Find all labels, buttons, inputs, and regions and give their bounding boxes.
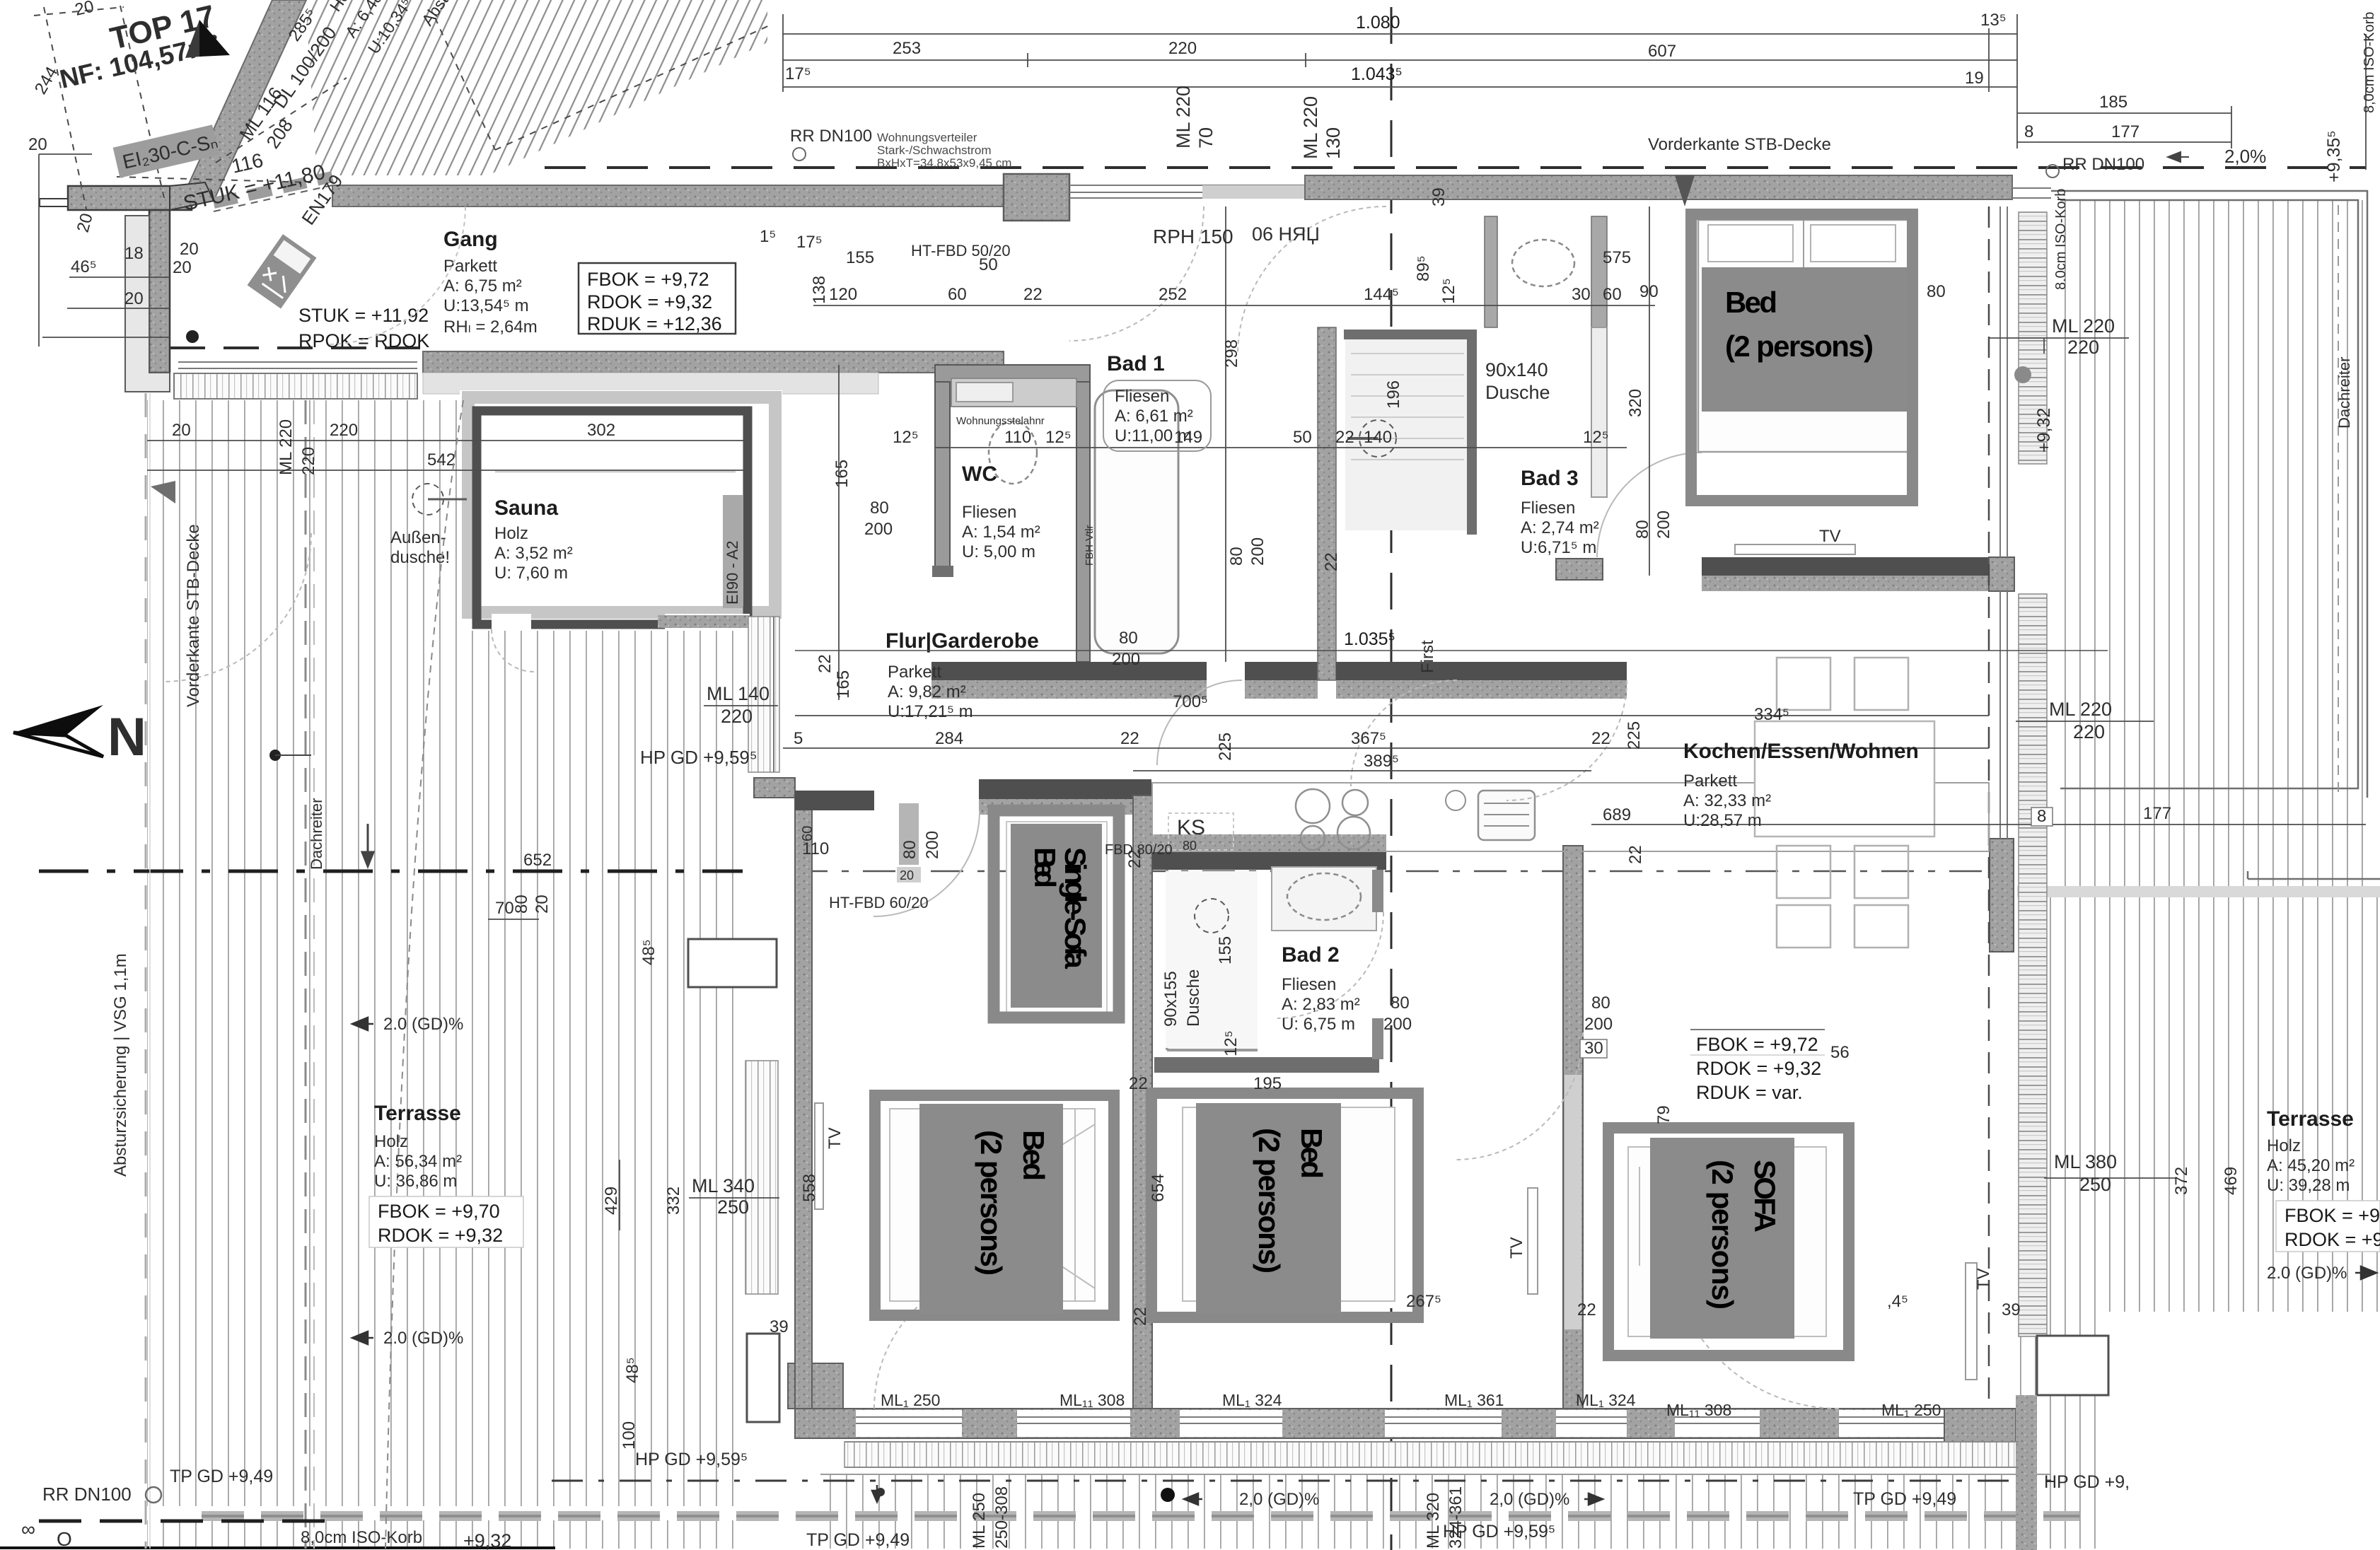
svg-text:Single-Sofa: Single-Sofa: [1059, 847, 1092, 969]
wall: bedroomTR south: [1702, 557, 1998, 576]
svg-text:2.0 (GD)%: 2.0 (GD)%: [2267, 1264, 2347, 1283]
svg-text:20: 20: [172, 421, 191, 440]
ladder strip boundary lines bottom: [844, 1441, 2019, 1443]
svg-text:250: 250: [717, 1196, 749, 1218]
svg-text:19: 19: [1965, 69, 1984, 88]
svg-text:Vorderkante STB-Decke: Vorderkante STB-Decke: [1648, 135, 1831, 154]
KS appliance outline: [1168, 813, 1233, 850]
window: east glazing lower: [2000, 591, 2040, 1336]
svg-text:ML 220: ML 220: [2052, 315, 2115, 337]
svg-text:60: 60: [800, 826, 815, 841]
svg-text:+9,32: +9,32: [463, 1530, 511, 1550]
svg-text:200: 200: [1383, 1015, 1412, 1034]
left arrow small: [362, 824, 373, 866]
section line vertical (First) x=1967: [1391, 7, 1393, 1550]
svg-text:Absturzsicherung | VSG 1,1m: Absturzsicherung | VSG 1,1m: [111, 953, 130, 1177]
svg-text:BxHxT=34,8x53x9,45 cm: BxHxT=34,8x53x9,45 cm: [877, 156, 1011, 170]
single bed outline: [1006, 822, 1107, 1013]
svg-text:607: 607: [1648, 42, 1676, 61]
wall: bath block south: [931, 662, 1207, 680]
bottom gray dashed band y=2144: [202, 1511, 2079, 1521]
svg-text:A: 2,83 m²: A: 2,83 m²: [1282, 995, 1360, 1014]
svg-text:220: 220: [1168, 39, 1197, 58]
svg-text:39: 39: [1429, 187, 1449, 206]
svg-text:177: 177: [2111, 122, 2140, 141]
svg-text:ML₁ 361: ML₁ 361: [1444, 1391, 1504, 1409]
svg-text:HP GD +9,59⁵: HP GD +9,59⁵: [640, 747, 757, 768]
svg-text:2,0%: 2,0%: [2224, 146, 2266, 167]
svg-text:140: 140: [1364, 428, 1392, 447]
svg-text:39: 39: [2002, 1300, 2021, 1319]
kitchen counter outline: [1152, 783, 1989, 851]
svg-text:8,0cm ISO-Korb: 8,0cm ISO-Korb: [2362, 12, 2377, 113]
svg-text:22: 22: [1591, 729, 1610, 748]
fixture: bad2 shower 90x155: [1167, 870, 1258, 1050]
svg-text:ML 250: ML 250: [970, 1493, 989, 1549]
sofa outline: [1628, 1147, 1826, 1336]
svg-text:200: 200: [1584, 1015, 1613, 1034]
fixture: bad2 washbasin: [1272, 867, 1376, 931]
vorderkante line vertical left: [145, 393, 147, 1549]
svg-text:ML₁ 250: ML₁ 250: [1881, 1401, 1941, 1419]
svg-text:30: 30: [1572, 285, 1591, 304]
svg-text:252: 252: [1159, 285, 1187, 304]
wall: bad2 east jamb: [1372, 870, 1383, 912]
parapet stub left: [40, 199, 68, 206]
svg-text:165: 165: [834, 670, 853, 699]
window: flur west ML140: [748, 617, 779, 772]
svg-text:FBOK = +9: FBOK = +9: [2285, 1205, 2380, 1226]
wall: gang south band: [423, 351, 1004, 373]
svg-text:Parkett: Parkett: [888, 663, 941, 682]
svg-text:225: 225: [1625, 721, 1644, 750]
svg-text:22: 22: [815, 654, 835, 673]
svg-text:EI90 - A2: EI90 - A2: [724, 540, 741, 605]
svg-text:80: 80: [870, 499, 889, 518]
fixture: wc toilet: [989, 421, 1037, 484]
svg-text:17⁵: 17⁵: [785, 64, 811, 83]
svg-text:20: 20: [900, 868, 914, 882]
svg-text:Bad 3: Bad 3: [1521, 467, 1579, 490]
svg-text:130: 130: [1323, 127, 1344, 159]
dining table: [1755, 721, 1934, 837]
svg-text:Terrasse: Terrasse: [374, 1102, 461, 1125]
wall: east corner top: [1989, 557, 2014, 591]
svg-text:90x140: 90x140: [1485, 359, 1548, 380]
svg-text:13⁵: 13⁵: [1980, 11, 2007, 30]
svg-text:Sauna: Sauna: [494, 496, 558, 520]
svg-text:22: 22: [1129, 1074, 1148, 1093]
svg-text:225: 225: [1216, 733, 1235, 761]
svg-text:220: 220: [2073, 721, 2105, 742]
svg-text:39: 39: [770, 1317, 789, 1336]
svg-text:1.080: 1.080: [1356, 13, 1400, 33]
svg-text:48⁵: 48⁵: [623, 1357, 642, 1383]
svg-text:220: 220: [2067, 337, 2099, 358]
svg-text:U: 39,28 m: U: 39,28 m: [2267, 1176, 2350, 1195]
svg-text:80: 80: [1119, 629, 1138, 648]
svg-text:N: N: [108, 707, 146, 767]
svg-text:60: 60: [948, 285, 967, 304]
svg-text:Bad 2: Bad 2: [1282, 943, 1340, 967]
svg-text:18: 18: [124, 244, 144, 263]
svg-text:22: 22: [1626, 845, 1645, 864]
fixture: bad3 shower head: [1359, 420, 1396, 457]
svg-text:+9,35⁵: +9,35⁵: [2324, 130, 2344, 182]
wall: north exterior (Gang section): [332, 185, 1004, 206]
svg-text:8: 8: [2024, 122, 2033, 141]
svg-text:Terrasse: Terrasse: [2267, 1107, 2354, 1131]
svg-text:8.0cm ISO-Korb: 8.0cm ISO-Korb: [2053, 189, 2069, 290]
svg-text:1⁵: 1⁵: [760, 227, 776, 246]
svg-text:2.0 (GD)%: 2.0 (GD)%: [383, 1015, 463, 1034]
svg-text:100: 100: [620, 1421, 639, 1450]
svg-text:320: 320: [1626, 389, 1645, 417]
wall: bedroom1/bedroom2 divider: [1133, 796, 1152, 1409]
dashed diagonal property lines: [34, 6, 771, 209]
sauna door arc: [492, 629, 534, 672]
niche speckle left of wall: [125, 216, 170, 392]
svg-text:SOFA: SOFA: [1748, 1160, 1782, 1233]
svg-text:A: 6,61 m²: A: 6,61 m²: [1115, 407, 1193, 426]
dachreiter dashed curve: [385, 400, 463, 1549]
svg-text:RDUK = +12,36: RDUK = +12,36: [587, 313, 722, 334]
svg-text:185: 185: [2099, 93, 2128, 112]
svg-text:ML₁ 324: ML₁ 324: [1576, 1391, 1636, 1409]
svg-text:12⁵: 12⁵: [1583, 428, 1609, 447]
svg-text:∞: ∞: [21, 1518, 35, 1540]
window: north ML220 opening: [1069, 185, 1305, 198]
label: EI30-C-S gray box: [113, 124, 221, 178]
svg-text:22: 22: [1131, 1307, 1150, 1326]
svg-text:652: 652: [523, 851, 552, 870]
svg-text:TV: TV: [1819, 527, 1841, 546]
dashed line left top area y=491: [170, 346, 423, 349]
svg-text:RDOK = +9,32: RDOK = +9,32: [587, 291, 712, 313]
wall: kitchen / bad2 top: [1152, 851, 1386, 870]
svg-text:12⁵: 12⁵: [1439, 278, 1458, 304]
fixture: wc washbasin counter: [951, 378, 1076, 407]
svg-text:HP GD +9,59⁵: HP GD +9,59⁵: [635, 1450, 748, 1469]
svg-text:80: 80: [1633, 520, 1652, 539]
svg-text:A: 32,33 m²: A: 32,33 m²: [1683, 791, 1771, 810]
sauna white underlay: [460, 390, 782, 631]
svg-text:ML 140: ML 140: [707, 683, 770, 704]
dachreiter dashed line right terrace: [2338, 205, 2339, 792]
svg-text:Dachreiter: Dachreiter: [308, 798, 325, 870]
svg-text:Parkett: Parkett: [443, 257, 497, 276]
dashed line bottom-left: [39, 1520, 325, 1523]
svg-text:ML 380: ML 380: [2054, 1151, 2117, 1172]
svg-text:22: 22: [1322, 552, 1341, 571]
svg-text:Fliesen: Fliesen: [1521, 499, 1575, 518]
svg-text:12⁵: 12⁵: [893, 428, 919, 447]
svg-text:80: 80: [512, 895, 531, 914]
wall: stub left of bedroomTR door: [1556, 559, 1603, 580]
svg-text:30: 30: [1584, 1039, 1603, 1058]
svg-text:(2 persons): (2 persons): [1706, 1160, 1739, 1310]
left terrace Absturzsicherung double dashed boundary x=435: [305, 400, 307, 1549]
svg-text:Wohnungsstelahnr: Wohnungsstelahnr: [956, 415, 1045, 427]
svg-text:8,0cm ISO-Korb: 8,0cm ISO-Korb: [301, 1528, 422, 1547]
svg-text:Bad 1: Bad 1: [1107, 352, 1165, 375]
svg-text:149: 149: [1174, 428, 1202, 447]
wall: wc top: [935, 365, 1090, 382]
svg-text:165: 165: [832, 460, 852, 488]
svg-text:5: 5: [794, 729, 803, 748]
svg-text:Dusche: Dusche: [1184, 969, 1203, 1027]
svg-text:50: 50: [1293, 428, 1312, 447]
svg-text:Stark-/Schwachstrom: Stark-/Schwachstrom: [877, 144, 992, 157]
windows in south wall: [856, 1410, 1944, 1437]
svg-text:TP GD +9,49: TP GD +9,49: [806, 1530, 910, 1550]
wall: east exterior pier mid: [1990, 839, 2014, 952]
bottom black edge line: [0, 1546, 555, 1549]
svg-text:20: 20: [180, 240, 199, 259]
svg-text:200: 200: [1248, 537, 1267, 566]
wall: flur west corner: [754, 778, 795, 798]
svg-text:U: 6,75 m: U: 6,75 m: [1282, 1015, 1355, 1034]
svg-text:(2 persons): (2 persons): [975, 1130, 1008, 1276]
svg-text:ML₁ 250: ML₁ 250: [881, 1391, 940, 1409]
svg-text:KS: KS: [1177, 816, 1205, 839]
svg-text:70: 70: [1195, 127, 1217, 148]
furniture: Bed 2 persons bottom-mid: [1151, 1093, 1418, 1317]
svg-text:06 HЯЏ: 06 HЯЏ: [1252, 223, 1320, 245]
svg-text:Holz: Holz: [374, 1132, 408, 1151]
svg-text:17⁵: 17⁵: [796, 233, 823, 252]
svg-text:RDOK = +9: RDOK = +9: [2285, 1229, 2380, 1250]
fixture: sink: [1478, 791, 1535, 840]
svg-text:RR DN100: RR DN100: [2062, 155, 2144, 174]
svg-text:700⁵: 700⁵: [1173, 692, 1208, 711]
svg-text:TP GD +9,49: TP GD +9,49: [1853, 1489, 1956, 1509]
south-west corner block: [788, 1363, 843, 1409]
wall: bad3 west speckled: [1318, 327, 1336, 680]
neighbour diagonal hatch top-left: [306, 0, 767, 175]
svg-text:200: 200: [923, 831, 942, 859]
svg-text:138: 138: [810, 276, 829, 304]
svg-text:90: 90: [1639, 282, 1659, 301]
bottom deck top line: [820, 1474, 2051, 1475]
wall: bad3 toilet niche piers: [1485, 216, 1497, 327]
svg-text:220: 220: [330, 421, 358, 440]
svg-text:RR DN100: RR DN100: [42, 1484, 132, 1505]
upper dims row: [829, 248, 1622, 304]
svg-text:,4⁵: ,4⁵: [1887, 1292, 1908, 1311]
section line horizontal dash-dot y=1232: [39, 870, 743, 873]
svg-text:2.0 (GD)%: 2.0 (GD)%: [383, 1329, 463, 1348]
svg-text:HP GD +9,: HP GD +9,: [2044, 1472, 2130, 1492]
ladder strip below south wall: [844, 1442, 2019, 1467]
mid dims row y=620: [893, 428, 1609, 447]
svg-text:ML 220: ML 220: [1300, 96, 1321, 159]
svg-text:ML 220: ML 220: [277, 419, 296, 475]
svg-text:ML₁₁ 308: ML₁₁ 308: [1060, 1391, 1125, 1409]
svg-text:2,0 (GD)%: 2,0 (GD)%: [1490, 1490, 1569, 1509]
left edge dims: [28, 135, 199, 308]
furniture: Single-Sofa Bed: [994, 810, 1119, 1018]
svg-text:196: 196: [1384, 380, 1403, 409]
terrace right upper decking hatch: [2051, 200, 2366, 886]
svg-text:U:6,71⁵ m: U:6,71⁵ m: [1521, 538, 1596, 557]
wall: wc left: [935, 382, 950, 567]
svg-text:RDOK = +9,32: RDOK = +9,32: [1696, 1058, 1821, 1079]
svg-text:ML 340: ML 340: [692, 1175, 755, 1196]
svg-text:TV: TV: [825, 1127, 844, 1149]
terrace right lower decking hatch: [2017, 897, 2380, 1312]
svg-text:110: 110: [1004, 428, 1031, 447]
bed outline bottom-left: [890, 1109, 1095, 1301]
label: EI90-A2 strip: [723, 495, 743, 608]
wall: wc/bad1 divider: [1076, 382, 1090, 662]
svg-text:80: 80: [1927, 282, 1946, 301]
svg-text:U:17,21⁵ m: U:17,21⁵ m: [888, 702, 973, 721]
wall: gang west vertical: [149, 210, 170, 373]
svg-text:(2 persons): (2 persons): [1253, 1128, 1286, 1274]
svg-text:RR DN100: RR DN100: [790, 127, 872, 146]
svg-text:Fliesen: Fliesen: [962, 503, 1016, 522]
svg-text:RHₗ = 2,64m: RHₗ = 2,64m: [443, 317, 538, 337]
fixture: bad3 toilet top: [1512, 240, 1574, 286]
svg-text:22: 22: [1023, 285, 1043, 304]
svg-text:(2 persons): (2 persons): [1725, 330, 1874, 363]
svg-text:48⁵: 48⁵: [639, 939, 658, 965]
svg-text:324-361: 324-361: [1446, 1486, 1465, 1549]
svg-text:200: 200: [1112, 650, 1140, 669]
svg-text:Dusche: Dusche: [1485, 382, 1550, 403]
svg-text:ML₁ 324: ML₁ 324: [1222, 1391, 1282, 1409]
outdoor shower symbol: [412, 484, 443, 515]
svg-text:144⁵: 144⁵: [1364, 285, 1399, 304]
svg-text:TV: TV: [1974, 1268, 1993, 1290]
svg-text:195: 195: [1253, 1074, 1282, 1093]
svg-text:RDUK = var.: RDUK = var.: [1696, 1082, 1803, 1103]
svg-text:70: 70: [495, 899, 514, 918]
wall: shower 90x140 frame bad3: [1344, 334, 1472, 535]
svg-text:250: 250: [2079, 1174, 2111, 1195]
svg-text:Flur|Garderobe: Flur|Garderobe: [886, 629, 1039, 653]
svg-text:Dachreiter: Dachreiter: [2335, 357, 2353, 429]
sauna bench lines: [495, 471, 736, 473]
svg-text:FBOK = +9,70: FBOK = +9,70: [378, 1201, 500, 1222]
svg-text:220: 220: [721, 706, 753, 727]
svg-text:HT-FBD 60/20: HT-FBD 60/20: [829, 894, 929, 911]
wall: diagonal neighbour band top-left: [181, 0, 306, 201]
svg-text:12⁵: 12⁵: [1221, 1030, 1241, 1056]
vorderkante triangle left: [151, 481, 175, 503]
wall: bad3 south: [1336, 662, 1627, 680]
window: east glazing upper: [2000, 206, 2007, 557]
TV bedroomTR: [1735, 544, 1855, 554]
svg-text:60: 60: [1603, 285, 1622, 304]
svg-text:+9,32: +9,32: [2034, 408, 2054, 453]
svg-text:56: 56: [1830, 1043, 1850, 1062]
svg-text:O: O: [57, 1528, 72, 1550]
svg-text:U:28,57 m: U:28,57 m: [1683, 811, 1762, 830]
svg-text:250-308: 250-308: [992, 1486, 1011, 1549]
bed outline bottom-mid: [1183, 1107, 1395, 1301]
wall: diagonal dashed door band (ML 116/208): [214, 177, 332, 203]
svg-text:372: 372: [2172, 1167, 2191, 1195]
svg-text:12⁵: 12⁵: [1045, 428, 1072, 447]
svg-text:389⁵: 389⁵: [1364, 752, 1399, 771]
svg-text:ML 220: ML 220: [1173, 86, 1194, 148]
svg-text:ML 320: ML 320: [1424, 1493, 1443, 1549]
svg-text:ML₁₁ 308: ML₁₁ 308: [1666, 1401, 1731, 1419]
svg-text:U:13,54⁵ m: U:13,54⁵ m: [443, 296, 529, 315]
svg-text:155: 155: [846, 248, 874, 267]
bottom dashed line y=2094: [552, 1480, 2051, 1482]
svg-text:1.035⁵: 1.035⁵: [1344, 629, 1395, 649]
svg-text:Außen-: Außen-: [390, 528, 446, 547]
bottom right corner window block: [2037, 1336, 2108, 1395]
label: TV bedroom2 rotated: [1528, 1188, 1538, 1294]
terrace bottom decking hatch: [820, 1474, 2051, 1549]
svg-text:332: 332: [664, 1187, 683, 1215]
svg-text:1.043⁵: 1.043⁵: [1351, 64, 1403, 84]
svg-text:20: 20: [173, 258, 192, 277]
svg-text:8: 8: [2037, 807, 2046, 826]
svg-text:558: 558: [800, 1174, 819, 1202]
svg-text:A: 56,34 m²: A: 56,34 m²: [374, 1152, 462, 1171]
svg-text:U: 7,60 m: U: 7,60 m: [494, 564, 568, 583]
svg-text:20: 20: [124, 289, 144, 308]
svg-text:253: 253: [893, 39, 921, 58]
wall: bad2 south: [1154, 1057, 1379, 1073]
svg-text:334⁵: 334⁵: [1754, 705, 1789, 724]
svg-text:689: 689: [1603, 805, 1631, 824]
svg-text:79: 79: [1654, 1105, 1673, 1124]
svg-text:80: 80: [1591, 993, 1610, 1013]
right terrace frame lines: [2051, 191, 2367, 798]
svg-text:HT-FBD 50/20: HT-FBD 50/20: [911, 242, 1011, 260]
svg-text:RPOK = RDOK: RPOK = RDOK: [298, 330, 429, 351]
svg-text:200: 200: [1654, 511, 1673, 539]
svg-text:Fliesen: Fliesen: [1115, 387, 1169, 406]
south-east corner block: [1944, 1409, 2016, 1447]
svg-text:STUK = +11,92: STUK = +11,92: [298, 305, 429, 326]
svg-text:22: 22: [1577, 1300, 1596, 1319]
svg-text:22: 22: [1120, 729, 1139, 748]
svg-text:302: 302: [587, 421, 615, 440]
svg-text:298: 298: [1222, 339, 1241, 368]
svg-text:Kochen/Essen/Wohnen: Kochen/Essen/Wohnen: [1683, 740, 1919, 763]
wall: north exterior (right section): [1305, 175, 2012, 199]
svg-text:A: 9,82 m²: A: 9,82 m²: [888, 682, 966, 701]
svg-text:155: 155: [1216, 936, 1235, 965]
wall: north pier at flur: [1004, 174, 1069, 221]
svg-text:FBOK = +9,72: FBOK = +9,72: [1696, 1034, 1818, 1055]
svg-text:90x155: 90x155: [1161, 971, 1180, 1027]
window: terrace door row left of gang: [174, 362, 417, 399]
svg-text:284: 284: [935, 729, 963, 748]
svg-text:U: 36,86 m: U: 36,86 m: [374, 1172, 457, 1191]
iso-korb ladder strip east: [2019, 212, 2047, 464]
svg-text:267⁵: 267⁵: [1406, 1292, 1441, 1311]
svg-text:654: 654: [1149, 1174, 1168, 1202]
svg-text:22: 22: [1335, 428, 1354, 447]
svg-text:ML 220: ML 220: [2049, 699, 2112, 720]
svg-text:80: 80: [1183, 839, 1197, 853]
svg-text:46⁵: 46⁵: [71, 257, 97, 276]
Vorderkante STB-Decke dashed line top y=237: [545, 166, 2366, 169]
svg-text:Bed: Bed: [1725, 286, 1777, 319]
wall: bedroom2 east: [1563, 846, 1583, 1409]
bed TR outline: [1698, 220, 1908, 452]
svg-text:TV: TV: [1507, 1237, 1526, 1259]
svg-text:Gang: Gang: [443, 228, 498, 251]
